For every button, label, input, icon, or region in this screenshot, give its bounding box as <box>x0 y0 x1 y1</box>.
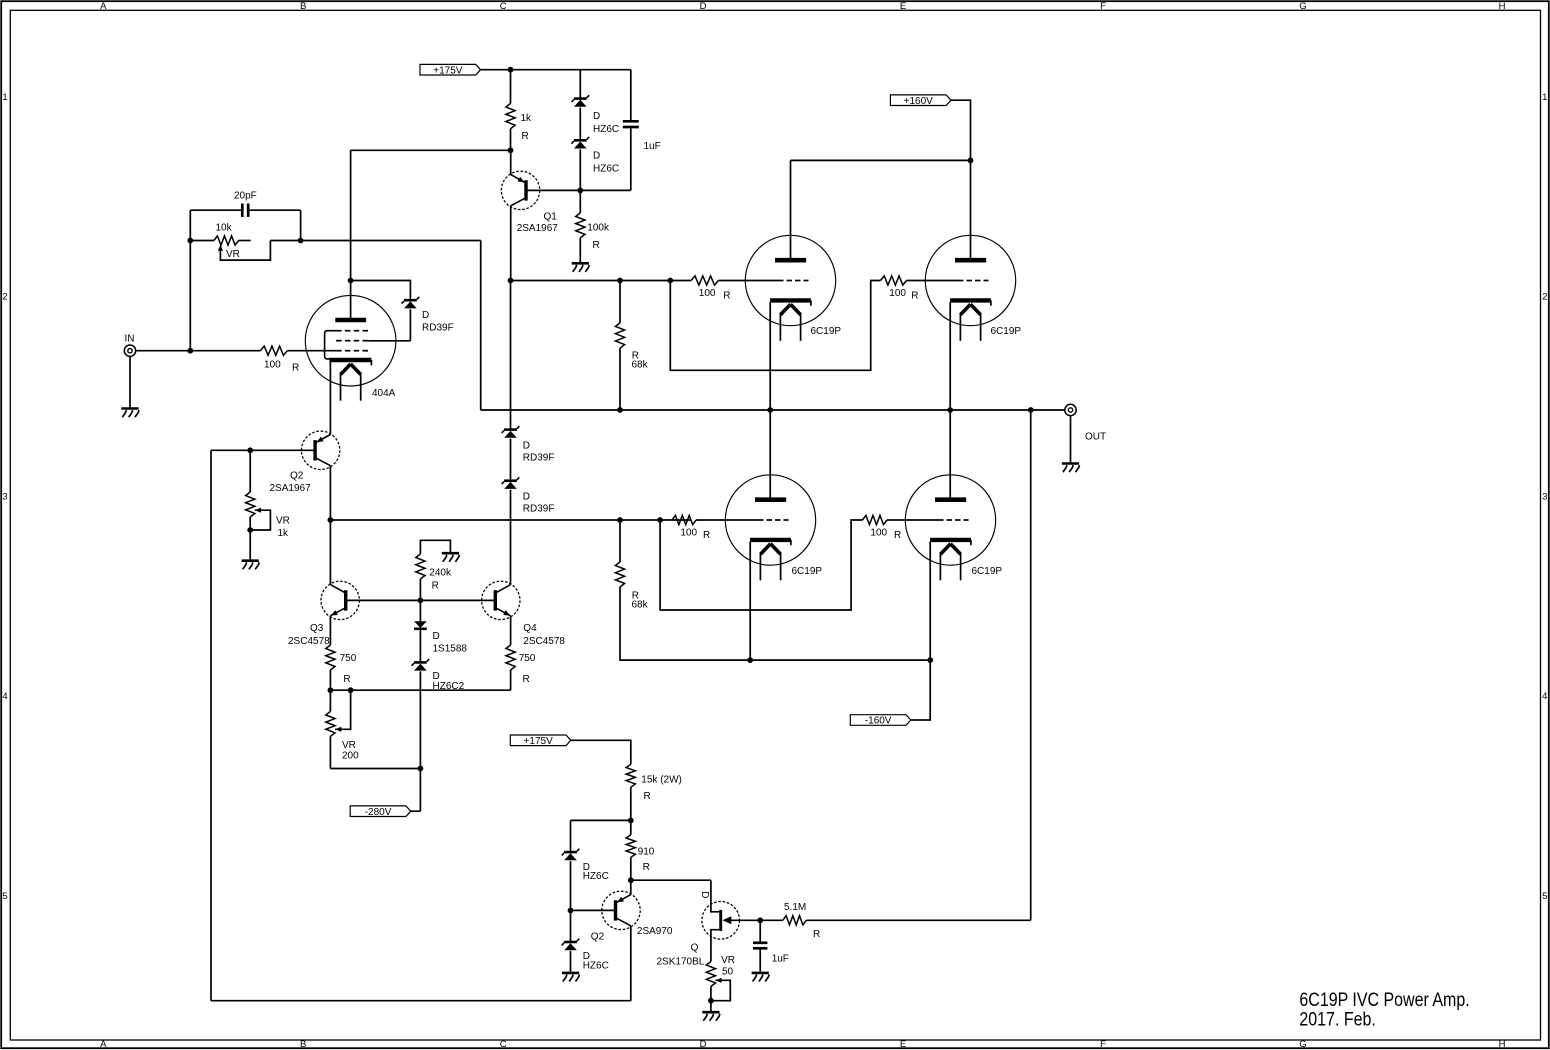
svg-text:D: D <box>700 1 707 12</box>
svg-text:HZ6C: HZ6C <box>593 124 619 135</box>
svg-text:R: R <box>813 929 820 940</box>
svg-text:1k: 1k <box>521 113 533 124</box>
svg-text:+160V: +160V <box>904 96 934 107</box>
svg-text:100: 100 <box>680 528 697 539</box>
svg-text:2017. Feb.: 2017. Feb. <box>1299 1010 1375 1031</box>
svg-text:D: D <box>593 111 600 122</box>
svg-text:68k: 68k <box>632 360 649 371</box>
svg-text:R: R <box>894 530 901 541</box>
svg-text:1S1588: 1S1588 <box>433 644 468 655</box>
svg-text:HZ6C: HZ6C <box>593 163 619 174</box>
svg-text:RD39F: RD39F <box>523 453 555 464</box>
svg-text:R: R <box>522 131 529 142</box>
svg-text:1uF: 1uF <box>644 141 661 152</box>
svg-text:R: R <box>523 674 530 685</box>
svg-text:D: D <box>433 631 440 642</box>
svg-text:VR: VR <box>226 249 240 260</box>
svg-text:G: G <box>1299 1039 1306 1050</box>
svg-text:C: C <box>500 1 507 12</box>
svg-text:H: H <box>1499 1039 1506 1050</box>
svg-text:RD39F: RD39F <box>422 323 454 334</box>
svg-text:6C19P: 6C19P <box>792 566 823 577</box>
svg-text:D: D <box>523 441 530 452</box>
svg-text:R: R <box>703 530 710 541</box>
svg-text:200: 200 <box>342 751 359 762</box>
svg-text:D: D <box>700 1039 707 1050</box>
svg-text:R: R <box>911 291 918 302</box>
svg-text:Q4: Q4 <box>523 623 537 634</box>
svg-text:100: 100 <box>264 360 281 371</box>
svg-text:5.1M: 5.1M <box>784 902 806 913</box>
svg-text:100: 100 <box>889 288 906 299</box>
svg-text:VR: VR <box>276 516 290 527</box>
svg-text:2SC4578: 2SC4578 <box>288 636 330 647</box>
svg-text:R: R <box>643 862 650 873</box>
svg-text:D: D <box>523 492 530 503</box>
svg-text:1uF: 1uF <box>772 954 789 965</box>
svg-text:750: 750 <box>340 653 357 664</box>
svg-text:1k: 1k <box>278 528 290 539</box>
svg-text:R: R <box>593 240 600 251</box>
svg-text:2SA970: 2SA970 <box>637 926 673 937</box>
svg-text:-160V: -160V <box>865 716 892 727</box>
svg-text:+175V: +175V <box>524 736 554 747</box>
svg-text:5: 5 <box>2 891 7 902</box>
svg-text:E: E <box>900 1 906 12</box>
svg-text:6C19P: 6C19P <box>991 326 1022 337</box>
svg-text:100: 100 <box>699 288 716 299</box>
svg-text:68k: 68k <box>632 600 649 611</box>
svg-text:910: 910 <box>638 847 655 858</box>
svg-text:R: R <box>292 363 299 374</box>
svg-text:100k: 100k <box>587 222 610 233</box>
svg-text:2: 2 <box>1542 292 1547 303</box>
svg-text:1: 1 <box>2 92 7 103</box>
svg-text:2SC4578: 2SC4578 <box>523 636 565 647</box>
svg-text:-280V: -280V <box>365 807 392 818</box>
svg-text:2SA1967: 2SA1967 <box>270 483 312 494</box>
svg-text:10k: 10k <box>216 223 233 234</box>
svg-text:Q2: Q2 <box>591 932 605 943</box>
svg-text:HZ6C2: HZ6C2 <box>433 681 465 692</box>
svg-text:R: R <box>644 791 651 802</box>
svg-text:B: B <box>300 1039 306 1050</box>
svg-text:6C19P: 6C19P <box>811 326 842 337</box>
svg-text:6C19P: 6C19P <box>972 566 1003 577</box>
svg-text:HZ6C: HZ6C <box>583 960 609 971</box>
svg-text:50: 50 <box>722 967 734 978</box>
svg-text:D: D <box>593 150 600 161</box>
svg-text:F: F <box>1100 1039 1106 1050</box>
svg-text:4: 4 <box>1542 691 1547 702</box>
svg-text:OUT: OUT <box>1085 432 1106 443</box>
svg-text:20pF: 20pF <box>234 191 257 202</box>
svg-text:D: D <box>422 310 429 321</box>
svg-text:G: G <box>1299 1 1306 12</box>
svg-text:2SK170BL: 2SK170BL <box>657 957 705 968</box>
svg-text:2: 2 <box>2 292 7 303</box>
svg-text:H: H <box>1499 1 1506 12</box>
svg-text:C: C <box>500 1039 507 1050</box>
svg-text:404A: 404A <box>372 388 396 399</box>
svg-text:R: R <box>432 581 439 592</box>
svg-text:3: 3 <box>2 491 7 502</box>
svg-text:Q2: Q2 <box>290 471 304 482</box>
svg-text:RD39F: RD39F <box>523 504 555 515</box>
svg-text:R: R <box>723 291 730 302</box>
svg-text:IN: IN <box>125 334 135 345</box>
svg-text:+175V: +175V <box>433 65 463 76</box>
svg-text:VR: VR <box>721 955 735 966</box>
svg-text:D: D <box>699 891 710 898</box>
svg-text:240k: 240k <box>429 568 452 579</box>
svg-text:A: A <box>100 1039 107 1050</box>
svg-text:E: E <box>900 1039 906 1050</box>
svg-text:F: F <box>1100 1 1106 12</box>
svg-text:15k (2W): 15k (2W) <box>641 774 682 785</box>
svg-text:HZ6C: HZ6C <box>583 871 609 882</box>
svg-text:2SA1967: 2SA1967 <box>517 223 559 234</box>
svg-text:5: 5 <box>1542 891 1547 902</box>
svg-text:R: R <box>343 674 350 685</box>
svg-text:6C19P IVC Power Amp.: 6C19P IVC Power Amp. <box>1299 990 1469 1011</box>
svg-text:100: 100 <box>870 528 887 539</box>
svg-text:Q: Q <box>691 943 699 954</box>
svg-text:750: 750 <box>519 653 536 664</box>
svg-text:A: A <box>100 1 107 12</box>
svg-text:Q3: Q3 <box>310 623 324 634</box>
svg-text:VR: VR <box>342 740 356 751</box>
svg-text:3: 3 <box>1542 491 1547 502</box>
svg-text:1: 1 <box>1542 92 1547 103</box>
svg-text:Q1: Q1 <box>544 212 558 223</box>
svg-text:4: 4 <box>2 691 7 702</box>
svg-text:B: B <box>300 1 306 12</box>
